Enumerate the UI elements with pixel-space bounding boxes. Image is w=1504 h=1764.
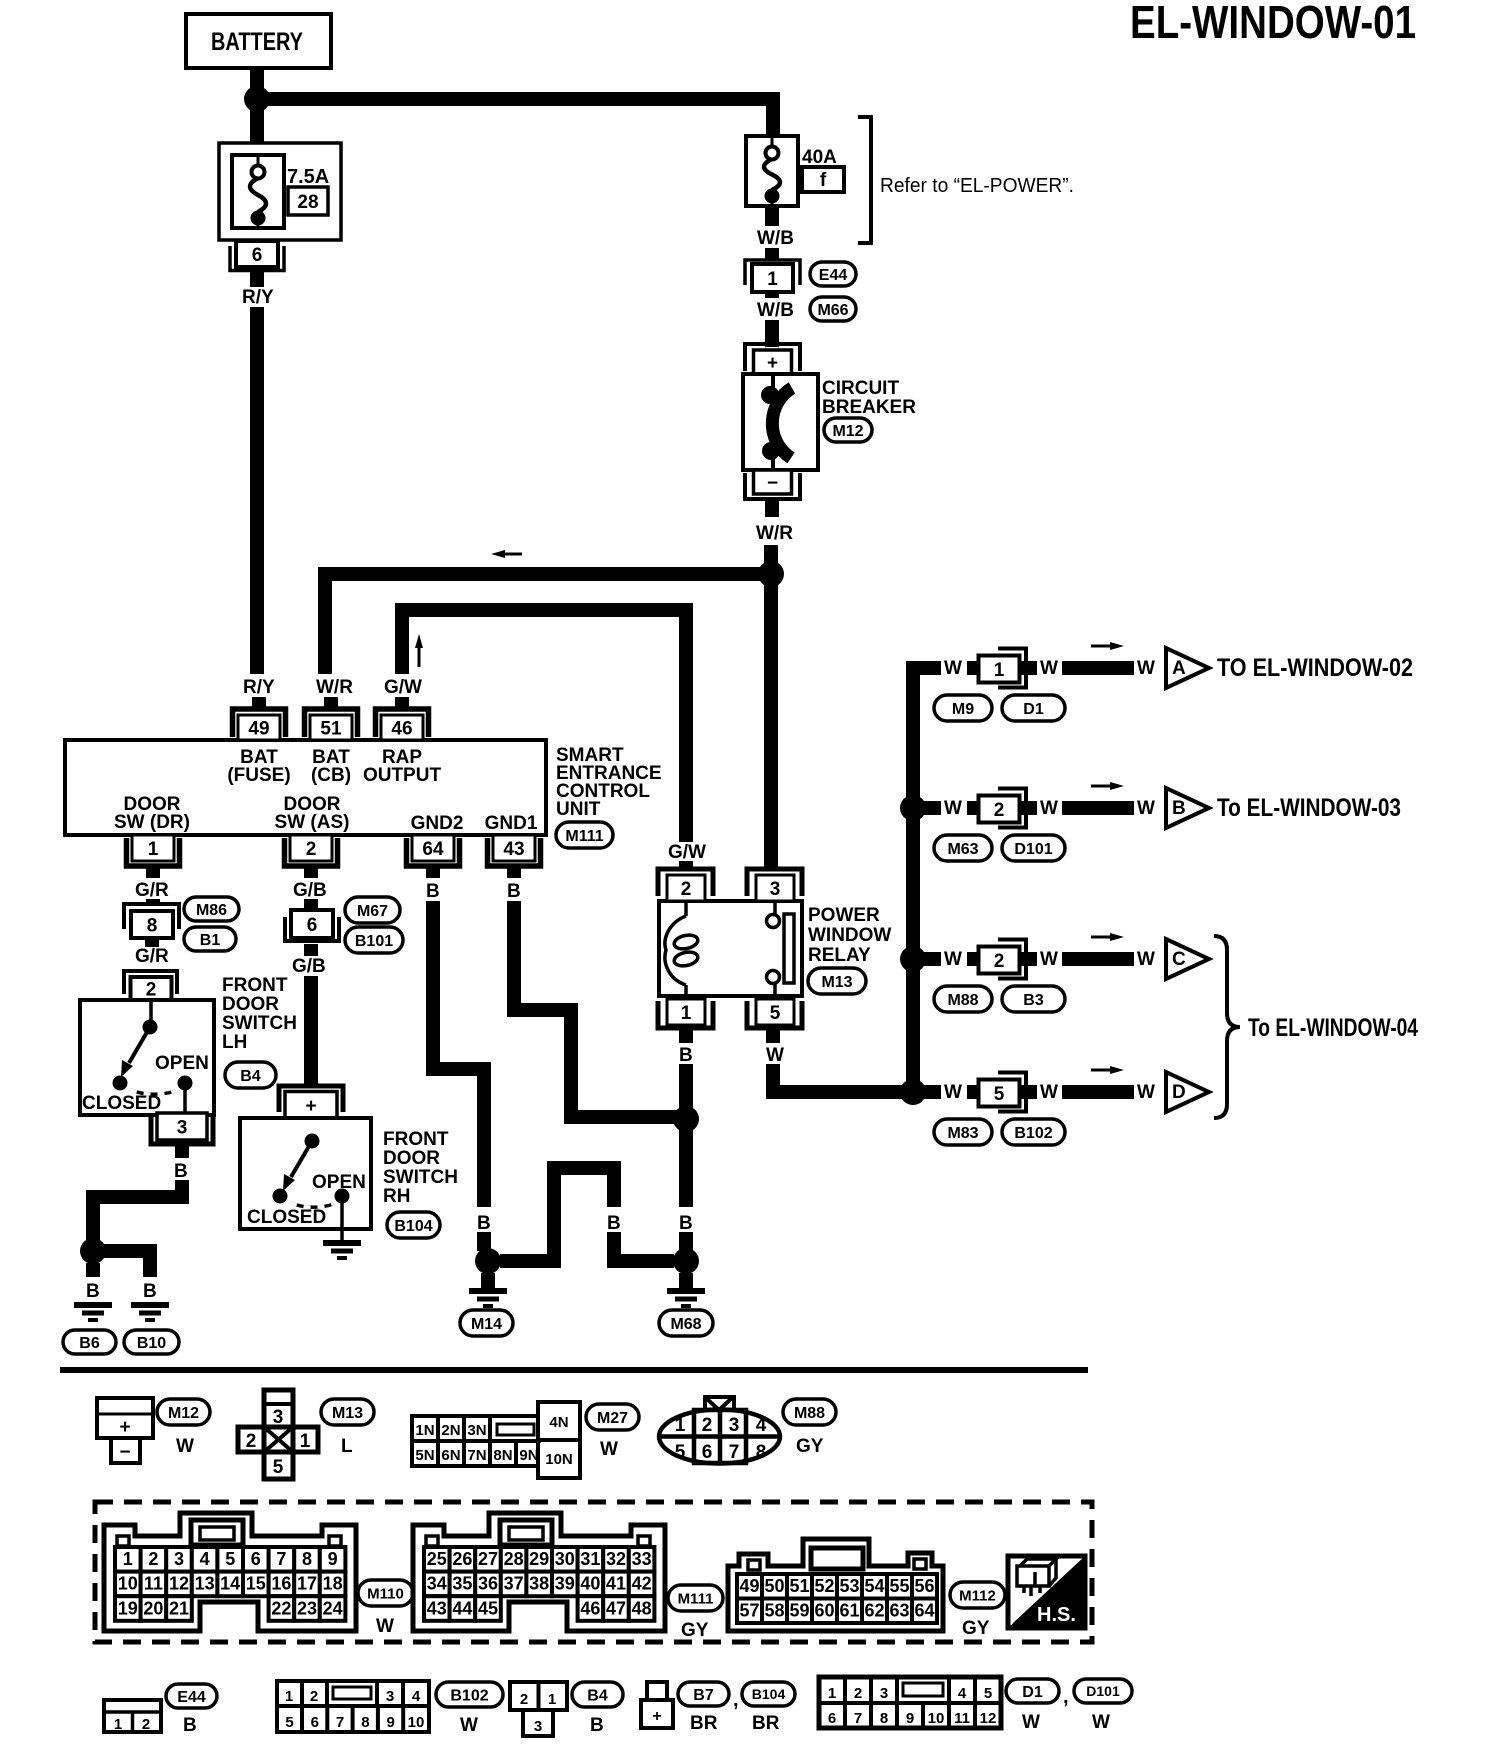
svg-text:2: 2 <box>994 800 1005 821</box>
oval M12 legend <box>157 1399 210 1425</box>
svg-text:52: 52 <box>814 1576 834 1596</box>
svg-text:23: 23 <box>297 1598 317 1618</box>
svg-text:5: 5 <box>225 1549 235 1569</box>
pin 51 BAT CB <box>305 709 358 737</box>
inline connector 5 row D <box>998 1073 1026 1112</box>
ground symbol M68 <box>667 1288 705 1294</box>
svg-text:W: W <box>944 1082 962 1103</box>
triangle connector A <box>1166 648 1209 688</box>
svg-text:1: 1 <box>767 269 778 290</box>
svg-text:2: 2 <box>146 979 157 1000</box>
svg-text:W: W <box>376 1616 394 1637</box>
smart entrance control unit box <box>65 740 546 835</box>
svg-text:M112: M112 <box>959 1587 996 1604</box>
wire segment row C <box>1062 952 1134 966</box>
svg-text:W: W <box>944 658 962 679</box>
svg-text:3: 3 <box>534 1718 542 1735</box>
svg-text:M86: M86 <box>196 902 227 919</box>
svg-text:B101: B101 <box>355 933 393 950</box>
svg-text:B: B <box>174 1161 188 1182</box>
oval B4 switch LH <box>225 1062 276 1088</box>
svg-text:30: 30 <box>555 1549 575 1569</box>
svg-text:1: 1 <box>675 1415 686 1436</box>
svg-text:B: B <box>183 1715 197 1736</box>
svg-text:B: B <box>679 1213 693 1234</box>
svg-text:9N: 9N <box>519 1447 538 1464</box>
connector 6 below fuse <box>230 246 284 271</box>
wire W/R down to pin 51 <box>318 567 332 674</box>
svg-text:2: 2 <box>520 1691 528 1708</box>
svg-text:W: W <box>944 798 962 819</box>
oval B10 <box>124 1330 179 1354</box>
svg-text:9: 9 <box>906 1710 914 1727</box>
svg-text:To EL-WINDOW-03: To EL-WINDOW-03 <box>1217 794 1401 822</box>
power window relay body M13 <box>659 901 802 996</box>
arrow up on G/W wire <box>418 648 421 667</box>
oval B101 <box>345 927 403 953</box>
wire stub M14 ground <box>481 1273 495 1288</box>
junction node W row D <box>900 1079 926 1105</box>
wire stub below E44 <box>765 292 779 298</box>
circuit breaker body <box>743 374 818 470</box>
svg-text:11: 11 <box>144 1574 163 1594</box>
connector M13 pinout cross <box>264 1390 293 1479</box>
svg-text:M12: M12 <box>168 1405 199 1422</box>
svg-text:WINDOW: WINDOW <box>808 925 891 946</box>
svg-text:B: B <box>426 881 440 902</box>
svg-text:1: 1 <box>828 1685 836 1702</box>
relay pin 2 <box>658 869 713 896</box>
svg-text:5: 5 <box>285 1714 293 1731</box>
svg-text:10N: 10N <box>545 1451 573 1468</box>
svg-text:+: + <box>119 1417 130 1438</box>
svg-text:M111: M111 <box>565 828 603 845</box>
triangle connector D <box>1166 1072 1209 1112</box>
svg-text:26: 26 <box>452 1549 472 1569</box>
svg-text:M13: M13 <box>332 1405 363 1422</box>
wire W row A <box>913 661 941 675</box>
wire breaker to W/R label <box>765 499 779 517</box>
oval B1 <box>184 927 236 951</box>
oval D101 legend <box>1074 1679 1132 1703</box>
wire 40A fuse to E44 <box>765 206 779 226</box>
svg-text:4: 4 <box>958 1685 967 1702</box>
svg-text:1: 1 <box>123 1549 133 1569</box>
svg-text:DOOR: DOOR <box>222 994 279 1015</box>
svg-text:49: 49 <box>248 718 269 739</box>
svg-text:M88: M88 <box>794 1405 825 1422</box>
svg-text:3: 3 <box>177 1117 188 1138</box>
svg-text:2: 2 <box>148 1549 158 1569</box>
connector M27 pinout <box>412 1416 541 1466</box>
svg-text:54: 54 <box>864 1576 884 1596</box>
svg-text:45: 45 <box>478 1598 498 1618</box>
svg-text:5: 5 <box>273 1457 284 1478</box>
svg-text:1: 1 <box>114 1716 122 1733</box>
connector 6 M67/B101 <box>291 910 333 938</box>
svg-text:W/R: W/R <box>316 677 353 698</box>
pin 46 RAP OUTPUT <box>376 709 429 737</box>
oval B4 legend <box>572 1682 623 1707</box>
bracket refer to EL-POWER <box>858 117 871 243</box>
arrow left on W/R wire <box>505 553 522 556</box>
svg-text:44: 44 <box>452 1598 472 1618</box>
svg-text:2N: 2N <box>441 1422 460 1439</box>
svg-text:M14: M14 <box>471 1316 502 1333</box>
svg-text:41: 41 <box>606 1574 626 1594</box>
wire stub fuse to R/Y <box>250 267 264 287</box>
svg-text:R/Y: R/Y <box>243 677 275 698</box>
svg-text:1: 1 <box>285 1688 293 1705</box>
svg-text:36: 36 <box>478 1574 498 1594</box>
RH switch open contact to ground <box>335 1189 350 1204</box>
wire W/R to junction <box>764 545 778 563</box>
svg-text:OPEN: OPEN <box>155 1053 209 1074</box>
wire battery to junction <box>250 68 264 93</box>
svg-text:4: 4 <box>412 1688 421 1705</box>
svg-text:B: B <box>86 1281 100 1302</box>
svg-text:7: 7 <box>276 1549 286 1569</box>
svg-text:2: 2 <box>681 879 692 900</box>
svg-text:−: − <box>119 1442 130 1463</box>
svg-text:31: 31 <box>580 1549 600 1569</box>
svg-text:GY: GY <box>796 1436 824 1457</box>
svg-text:51: 51 <box>789 1576 809 1596</box>
svg-text:5: 5 <box>984 1685 992 1702</box>
oval B102 legend <box>436 1682 503 1707</box>
junction node W/R <box>758 561 784 587</box>
svg-text:W: W <box>1040 798 1058 819</box>
svg-text:7: 7 <box>729 1442 740 1463</box>
fuse 7.5A No.28 <box>219 143 341 240</box>
svg-text:8N: 8N <box>493 1447 512 1464</box>
svg-text:4: 4 <box>756 1415 767 1436</box>
oval M110 legend <box>358 1580 413 1606</box>
svg-text:G/W: G/W <box>668 842 706 863</box>
oval M88 <box>934 986 992 1012</box>
svg-text:POWER: POWER <box>808 905 880 926</box>
arrow right row A <box>1091 645 1110 648</box>
svg-text:1: 1 <box>148 839 159 860</box>
svg-text:16: 16 <box>271 1574 291 1594</box>
svg-text:DOOR: DOOR <box>383 1148 440 1169</box>
svg-text:11: 11 <box>954 1710 970 1727</box>
oval B102 <box>1002 1119 1065 1145</box>
connector 2 at LH switch <box>124 971 177 994</box>
oval M88 legend <box>783 1399 836 1425</box>
RH switch pivot and arm <box>305 1134 320 1149</box>
separator line <box>60 1367 1088 1373</box>
plus terminal RH switch <box>279 1086 343 1112</box>
pin 2 DOOR SW AS <box>290 835 332 861</box>
svg-text:B: B <box>607 1213 621 1234</box>
svg-text:Refer to “EL-POWER”.: Refer to “EL-POWER”. <box>880 175 1074 197</box>
svg-text:−: − <box>767 473 778 494</box>
svg-text:9: 9 <box>387 1714 395 1731</box>
wire top horizontal bus <box>257 92 780 106</box>
arrow right row B <box>1091 785 1110 788</box>
connector B4 pinout <box>510 1682 567 1710</box>
svg-text:8: 8 <box>880 1710 888 1727</box>
svg-text:17: 17 <box>297 1574 317 1594</box>
connector 8 M86/B1 <box>124 904 179 929</box>
oval B3 <box>1002 986 1065 1012</box>
relay pin 1 <box>667 999 705 1025</box>
junction node B6/B10 <box>80 1238 106 1264</box>
svg-text:OPEN: OPEN <box>312 1172 366 1193</box>
svg-text:W: W <box>944 949 962 970</box>
wire GND2 to M14 ground <box>426 901 440 1076</box>
svg-text:B: B <box>143 1281 157 1302</box>
svg-text:2: 2 <box>854 1685 862 1702</box>
svg-text:46: 46 <box>580 1598 600 1618</box>
LH switch pivot and arm <box>149 1000 153 1027</box>
svg-text:B: B <box>507 881 521 902</box>
oval M67 <box>345 897 400 923</box>
svg-text:34: 34 <box>427 1574 447 1594</box>
wire G/B down to RH switch <box>304 976 318 1088</box>
oval M68 <box>659 1310 713 1336</box>
pin 49 BAT FUSE <box>233 709 286 737</box>
svg-text:B: B <box>590 1715 604 1736</box>
RH switch dashed arc <box>290 1203 334 1207</box>
relay pin 5 <box>756 999 794 1025</box>
svg-text:10: 10 <box>408 1714 425 1731</box>
svg-text:B104: B104 <box>752 1686 786 1702</box>
relay coil <box>684 901 688 916</box>
wire to B10 ground <box>93 1244 157 1258</box>
svg-text:59: 59 <box>789 1601 809 1621</box>
svg-text:W: W <box>1137 949 1155 970</box>
wire W to distribution bus <box>766 1085 913 1099</box>
svg-text:61: 61 <box>839 1601 859 1621</box>
oval M86 <box>184 897 239 921</box>
svg-text:63: 63 <box>889 1601 909 1621</box>
svg-text:8: 8 <box>361 1714 369 1731</box>
svg-text:29: 29 <box>529 1549 549 1569</box>
svg-text:SWITCH: SWITCH <box>222 1013 297 1034</box>
svg-text:M111: M111 <box>678 1590 714 1607</box>
connector E44 pinout <box>104 1700 161 1732</box>
svg-text:SWITCH: SWITCH <box>383 1167 458 1188</box>
wire segment row D <box>1062 1085 1134 1099</box>
svg-text:OUTPUT: OUTPUT <box>363 765 442 786</box>
oval B7 legend <box>678 1682 729 1706</box>
oval M66 <box>810 297 856 321</box>
svg-text:W: W <box>460 1715 478 1736</box>
svg-text:BREAKER: BREAKER <box>822 397 916 418</box>
svg-text:W: W <box>1040 1082 1058 1103</box>
svg-text:38: 38 <box>529 1574 549 1594</box>
svg-text:CLOSED: CLOSED <box>247 1207 326 1228</box>
svg-text:M110: M110 <box>367 1585 404 1602</box>
wire relay pin 1 B <box>679 1028 693 1043</box>
svg-text:9: 9 <box>328 1549 338 1569</box>
svg-text:43: 43 <box>503 839 524 860</box>
circuit breaker M12 plus terminal <box>745 344 800 371</box>
oval B6 <box>63 1330 116 1354</box>
svg-text:4: 4 <box>200 1549 210 1569</box>
svg-text:W: W <box>766 1045 784 1066</box>
svg-text:10: 10 <box>928 1710 945 1727</box>
svg-text:B102: B102 <box>1014 1125 1052 1142</box>
svg-text:3: 3 <box>729 1415 740 1436</box>
svg-text:13: 13 <box>195 1574 215 1594</box>
connector 1 E44/M66 <box>745 260 800 285</box>
svg-text:3N: 3N <box>467 1422 486 1439</box>
svg-text:W: W <box>600 1439 618 1460</box>
svg-text:14: 14 <box>220 1574 240 1594</box>
svg-text:W: W <box>1137 658 1155 679</box>
svg-text:B7: B7 <box>693 1687 714 1704</box>
svg-text:B3: B3 <box>1023 992 1044 1009</box>
svg-text:5: 5 <box>994 1084 1005 1105</box>
svg-text:32: 32 <box>606 1549 626 1569</box>
wire G/W horizontal <box>395 603 693 617</box>
svg-text:M88: M88 <box>947 992 978 1009</box>
triangle connector C <box>1166 939 1209 979</box>
svg-text:C: C <box>1172 949 1186 970</box>
wire segment row A <box>1062 661 1134 675</box>
svg-text:(FUSE): (FUSE) <box>227 765 290 786</box>
svg-text:+: + <box>652 1708 661 1725</box>
svg-text:BR: BR <box>752 1713 780 1734</box>
dashed harness box <box>95 1502 1092 1642</box>
svg-text:D101: D101 <box>1086 1683 1120 1699</box>
wire R/Y vertical <box>250 307 264 674</box>
wire W row C <box>913 952 941 966</box>
wire W/R junction down to relay pin 3 <box>764 574 778 869</box>
oval D1 legend <box>1006 1679 1059 1703</box>
oval M12 breaker <box>824 418 872 442</box>
svg-text:R/Y: R/Y <box>242 287 274 308</box>
oval E44 legend <box>166 1684 217 1708</box>
junction node M14 <box>475 1248 501 1274</box>
svg-text:B4: B4 <box>587 1687 608 1704</box>
oval B104 switch RH <box>387 1212 440 1238</box>
svg-text:6N: 6N <box>441 1447 460 1464</box>
svg-text:6: 6 <box>702 1442 713 1463</box>
svg-text:28: 28 <box>297 192 318 213</box>
svg-text:37: 37 <box>504 1574 524 1594</box>
pin 64 GND2 <box>412 835 454 861</box>
svg-text:TO EL-WINDOW-02: TO EL-WINDOW-02 <box>1217 654 1413 682</box>
svg-text:B6: B6 <box>79 1335 100 1352</box>
svg-text:GY: GY <box>681 1620 709 1641</box>
svg-text:8: 8 <box>147 915 158 936</box>
svg-text:6: 6 <box>311 1714 319 1731</box>
svg-text:M12: M12 <box>832 423 863 440</box>
svg-text:W/B: W/B <box>757 228 794 249</box>
pin 1 DOOR SW DR <box>132 835 174 861</box>
wire GND1 to relay-B junction <box>507 901 521 1017</box>
svg-text:GND2: GND2 <box>411 813 464 834</box>
svg-text:3: 3 <box>770 879 781 900</box>
svg-text:2: 2 <box>246 1431 257 1452</box>
svg-text:28: 28 <box>504 1549 524 1569</box>
wire W/R horizontal <box>318 567 771 581</box>
svg-text:W: W <box>176 1436 194 1457</box>
svg-text:+: + <box>767 353 778 374</box>
svg-text:1: 1 <box>681 1003 692 1024</box>
svg-text:M13: M13 <box>821 974 852 991</box>
oval M27 legend <box>586 1404 639 1430</box>
svg-text:21: 21 <box>169 1598 189 1618</box>
wire W row D <box>913 1085 941 1099</box>
svg-text:M68: M68 <box>670 1316 701 1333</box>
svg-text:64: 64 <box>914 1601 934 1621</box>
svg-text:7N: 7N <box>467 1447 486 1464</box>
svg-text:33: 33 <box>632 1549 652 1569</box>
svg-text:7.5A: 7.5A <box>287 166 329 188</box>
svg-text:D1: D1 <box>1023 701 1044 718</box>
oval D1 <box>1002 695 1065 721</box>
svg-text:G/R: G/R <box>135 880 169 901</box>
svg-text:64: 64 <box>422 839 444 860</box>
wire W row B <box>913 801 941 815</box>
svg-text:6: 6 <box>828 1710 836 1727</box>
svg-text:GND1: GND1 <box>485 813 538 834</box>
svg-text:2: 2 <box>306 839 317 860</box>
svg-text:W: W <box>1022 1712 1040 1733</box>
svg-text:BR: BR <box>690 1713 718 1734</box>
junction node W row C <box>900 946 926 972</box>
svg-text:L: L <box>341 1436 353 1457</box>
svg-text:43: 43 <box>427 1598 447 1618</box>
svg-text:57: 57 <box>739 1601 759 1621</box>
svg-text:CLOSED: CLOSED <box>82 1093 161 1114</box>
svg-text:LH: LH <box>222 1032 247 1053</box>
svg-text:40A: 40A <box>802 147 837 168</box>
svg-text:FRONT: FRONT <box>383 1129 449 1150</box>
front door switch RH box <box>240 1118 371 1229</box>
svg-text:10: 10 <box>118 1574 138 1594</box>
wire stub M68 ground <box>679 1273 693 1288</box>
svg-text:B104: B104 <box>394 1218 432 1235</box>
svg-text:f: f <box>820 170 827 191</box>
svg-text:,: , <box>1063 1686 1069 1708</box>
connector B102 pinout <box>277 1681 429 1732</box>
LH switch open contact <box>178 1076 193 1091</box>
ground symbol B10 <box>131 1302 169 1308</box>
svg-text:48: 48 <box>632 1598 652 1618</box>
circuit breaker minus terminal <box>754 470 792 494</box>
inline connector 1 row A <box>998 649 1026 688</box>
svg-text:8: 8 <box>302 1549 312 1569</box>
svg-text:M63: M63 <box>947 841 978 858</box>
svg-text:18: 18 <box>323 1574 343 1594</box>
svg-text:6: 6 <box>251 1549 261 1569</box>
svg-text:W: W <box>1137 1082 1155 1103</box>
relay contact <box>773 901 777 915</box>
wire junction to 7.5A fuse <box>250 99 264 143</box>
oval M14 <box>460 1310 513 1336</box>
svg-text:RH: RH <box>383 1186 410 1207</box>
arrow right row C <box>1091 936 1110 939</box>
svg-text:B: B <box>679 1045 693 1066</box>
svg-text:W: W <box>1040 949 1058 970</box>
inline connector 2 row B <box>998 789 1026 828</box>
svg-text:40: 40 <box>580 1574 600 1594</box>
svg-text:3: 3 <box>386 1688 394 1705</box>
wire W vertical bus <box>906 661 920 1092</box>
svg-text:20: 20 <box>143 1598 163 1618</box>
svg-text:24: 24 <box>323 1598 343 1618</box>
svg-text:RELAY: RELAY <box>808 945 871 966</box>
svg-text:1: 1 <box>994 660 1005 681</box>
wire relay pin 5 W <box>766 1028 780 1043</box>
oval M111 unit <box>556 822 613 848</box>
